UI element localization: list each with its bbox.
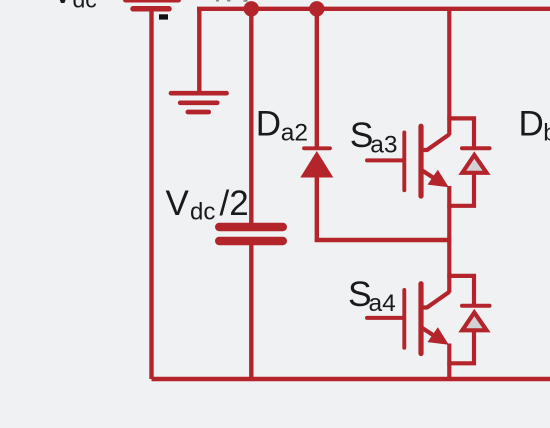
- svg-text:D: D: [519, 104, 544, 143]
- svg-text:V: V: [51, 0, 75, 11]
- svg-text:dc: dc: [73, 0, 97, 13]
- svg-text:dc: dc: [190, 199, 215, 226]
- svg-text:a3: a3: [370, 132, 397, 159]
- svg-text:V: V: [166, 184, 190, 223]
- svg-text:D: D: [256, 104, 281, 143]
- svg-text:a2: a2: [281, 119, 308, 146]
- svg-text:/2: /2: [220, 184, 249, 223]
- svg-text:b: b: [543, 120, 550, 147]
- svg-text:a4: a4: [369, 290, 396, 317]
